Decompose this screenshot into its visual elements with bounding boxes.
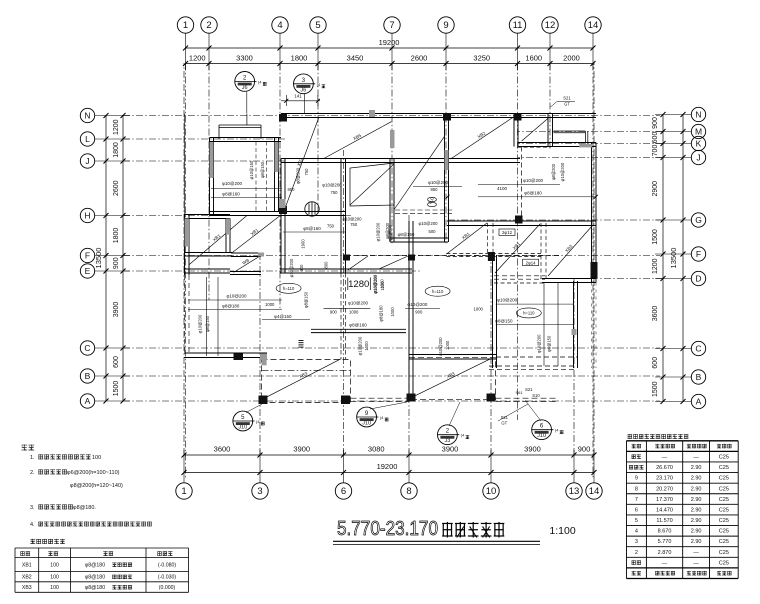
svg-text:—: — (693, 560, 699, 566)
svg-text:L: L (85, 134, 90, 144)
svg-text:C25: C25 (719, 518, 729, 524)
svg-text:3250: 3250 (473, 54, 490, 63)
svg-text:1200: 1200 (189, 54, 206, 63)
svg-text:K: K (696, 139, 702, 149)
svg-text:φ6@200(h=100~110): φ6@200(h=100~110) (67, 470, 120, 476)
svg-text:900: 900 (330, 310, 338, 315)
svg-text:C25: C25 (719, 486, 729, 492)
svg-text:900: 900 (299, 264, 304, 272)
svg-text:—: — (662, 454, 668, 460)
svg-text:1000: 1000 (445, 340, 450, 350)
svg-text:φ8@150: φ8@150 (495, 318, 513, 323)
svg-text:φ4@150: φ4@150 (274, 314, 292, 319)
svg-text:1500: 1500 (652, 381, 659, 397)
svg-text:1000: 1000 (364, 341, 369, 351)
svg-text:h=110: h=110 (432, 289, 444, 294)
svg-text:XB1: XB1 (22, 563, 32, 569)
svg-text:A: A (696, 397, 702, 407)
svg-text:10: 10 (486, 486, 497, 497)
svg-text:C25: C25 (719, 497, 729, 503)
svg-text:3300: 3300 (236, 54, 253, 63)
svg-text:2.90: 2.90 (691, 465, 702, 471)
svg-text:7: 7 (389, 20, 394, 31)
svg-text:1: 1 (183, 20, 188, 31)
svg-text:2.90: 2.90 (691, 518, 702, 524)
svg-text:φ10@200: φ10@200 (523, 178, 543, 183)
svg-text:1.: 1. (30, 455, 35, 461)
svg-text:1: 1 (181, 486, 186, 497)
svg-text:2.870: 2.870 (658, 550, 672, 556)
svg-text:GT: GT (564, 102, 570, 107)
svg-text:14.470: 14.470 (656, 507, 673, 513)
svg-text:2900: 2900 (652, 181, 659, 197)
svg-text:750: 750 (350, 222, 358, 227)
svg-text:3450: 3450 (347, 54, 364, 63)
svg-text:1:100: 1:100 (549, 525, 575, 537)
svg-text:φ10@200: φ10@200 (289, 258, 294, 277)
svg-text:14: 14 (589, 486, 600, 497)
svg-text:(-0.080): (-0.080) (158, 563, 176, 569)
svg-text:1000: 1000 (390, 307, 395, 317)
svg-text:600: 600 (652, 132, 659, 144)
svg-text:XB3: XB3 (22, 585, 32, 591)
svg-text:800: 800 (324, 261, 329, 269)
svg-text:φ8@180: φ8@180 (379, 305, 384, 322)
svg-text:2: 2 (206, 20, 211, 31)
svg-text:2φ12: 2φ12 (502, 230, 513, 235)
svg-text:1900: 1900 (301, 239, 306, 249)
svg-text:900: 900 (652, 117, 659, 129)
svg-text:J6: J6 (300, 87, 306, 93)
svg-text:J3: J3 (444, 438, 450, 444)
svg-text:J10: J10 (537, 433, 546, 439)
svg-text:2.90: 2.90 (691, 507, 702, 513)
svg-text:φ8@150: φ8@150 (547, 335, 552, 352)
svg-text:900: 900 (578, 445, 591, 454)
svg-text:4: 4 (277, 20, 282, 31)
svg-text:GT: GT (501, 421, 507, 426)
svg-text:750: 750 (327, 224, 335, 229)
svg-text:4: 4 (635, 529, 638, 535)
svg-text:(0.000): (0.000) (159, 585, 176, 591)
svg-text:(-0.030): (-0.030) (158, 575, 176, 581)
svg-text:B: B (696, 372, 702, 382)
svg-text:φ10@200: φ10@200 (198, 314, 203, 333)
svg-text:2000: 2000 (563, 54, 580, 63)
svg-text:φ8@150: φ8@150 (205, 315, 210, 332)
svg-text:3600: 3600 (652, 306, 659, 322)
svg-text:900: 900 (113, 257, 120, 269)
svg-text:C: C (695, 344, 701, 354)
svg-text:φ10@200: φ10@200 (497, 298, 517, 303)
svg-text:750: 750 (331, 190, 339, 195)
svg-text:1500: 1500 (652, 229, 659, 245)
svg-text:2.: 2. (30, 470, 35, 476)
svg-text:N: N (84, 111, 90, 121)
svg-text:S21: S21 (563, 96, 571, 101)
svg-text:13: 13 (569, 486, 580, 497)
svg-text:φ10@200: φ10@200 (322, 183, 342, 188)
svg-text:500: 500 (429, 229, 437, 234)
svg-text:3.: 3. (30, 505, 35, 511)
svg-text:S21: S21 (525, 387, 533, 392)
svg-text:2: 2 (635, 550, 638, 556)
svg-text:A: A (85, 396, 91, 406)
svg-text:M: M (695, 127, 702, 137)
svg-text:100: 100 (50, 575, 59, 581)
svg-text:20.270: 20.270 (656, 486, 673, 492)
svg-text:J: J (85, 156, 89, 166)
svg-text:8.670: 8.670 (658, 529, 672, 535)
svg-text:2.90: 2.90 (691, 529, 702, 535)
svg-text:φ8@180: φ8@180 (85, 585, 105, 591)
svg-text:φ8@180: φ8@180 (85, 563, 105, 569)
svg-text:5.770: 5.770 (658, 539, 672, 545)
svg-text:φ10@200: φ10@200 (560, 162, 565, 181)
svg-text:5: 5 (635, 518, 638, 524)
svg-text:h=110: h=110 (283, 286, 295, 291)
svg-text:3: 3 (257, 486, 262, 497)
svg-text:4.: 4. (30, 522, 35, 528)
svg-text:h=110: h=110 (523, 311, 535, 316)
svg-text:φ10@200: φ10@200 (342, 217, 362, 222)
svg-text:750: 750 (304, 168, 309, 176)
svg-text:F: F (85, 251, 90, 261)
svg-text:S10: S10 (532, 393, 540, 398)
svg-text:5.770-23.170: 5.770-23.170 (337, 517, 438, 540)
svg-text:19200: 19200 (377, 462, 398, 471)
svg-text:9: 9 (443, 20, 448, 31)
svg-text:J10: J10 (238, 425, 247, 431)
svg-text:φ8@200: φ8@200 (551, 163, 556, 180)
svg-text:φ8@180: φ8@180 (222, 304, 240, 309)
svg-text:φ8@150: φ8@150 (398, 232, 415, 237)
svg-text:φ10@200: φ10@200 (418, 221, 438, 226)
svg-text:700: 700 (652, 145, 659, 157)
svg-text:φ10@200: φ10@200 (376, 222, 381, 241)
svg-text:3: 3 (635, 539, 638, 545)
svg-text:1000: 1000 (265, 302, 275, 307)
svg-text:1200: 1200 (113, 119, 120, 135)
svg-text:850: 850 (288, 187, 296, 192)
svg-text:2600: 2600 (411, 54, 428, 63)
svg-text:3600: 3600 (214, 445, 231, 454)
svg-text:φ8@180.: φ8@180. (73, 505, 96, 511)
svg-text:2.90: 2.90 (691, 497, 702, 503)
svg-text:11: 11 (513, 20, 523, 31)
svg-text:φ8@150: φ8@150 (303, 291, 308, 308)
svg-text:—: — (693, 454, 699, 460)
svg-text:E: E (85, 266, 91, 276)
svg-text:3900: 3900 (113, 302, 120, 318)
svg-text:100: 100 (50, 563, 59, 569)
svg-text:2φ14: 2φ14 (526, 260, 537, 265)
svg-text:H: H (84, 211, 90, 221)
svg-text:φ10@200: φ10@200 (373, 275, 378, 294)
svg-text:D: D (695, 274, 701, 284)
svg-text:3900: 3900 (524, 445, 541, 454)
svg-text:φ10@200: φ10@200 (227, 294, 247, 299)
svg-text:12: 12 (545, 20, 556, 31)
svg-text:17.370: 17.370 (656, 497, 673, 503)
svg-text:3080: 3080 (368, 445, 385, 454)
svg-text:23.170: 23.170 (656, 476, 673, 482)
svg-text:φ8@160: φ8@160 (222, 192, 240, 197)
svg-text:1600: 1600 (525, 54, 542, 63)
svg-text:φ10@200: φ10@200 (358, 336, 363, 355)
svg-text:G: G (695, 215, 702, 225)
svg-text:1800: 1800 (291, 54, 308, 63)
svg-text:φ10@200: φ10@200 (536, 334, 541, 353)
svg-text:φ8@200: φ8@200 (387, 224, 392, 241)
svg-text:2.90: 2.90 (691, 476, 702, 482)
svg-text:1000: 1000 (349, 310, 359, 315)
svg-text:φ10@200: φ10@200 (222, 181, 242, 186)
svg-text:1200: 1200 (652, 258, 659, 274)
svg-text:850: 850 (431, 187, 439, 192)
svg-text:B: B (85, 371, 91, 381)
svg-text:φ8@160: φ8@160 (349, 323, 367, 328)
svg-text:φ10@200: φ10@200 (407, 302, 427, 307)
svg-text:1000: 1000 (380, 281, 385, 291)
svg-text:C: C (84, 343, 90, 353)
svg-text:φ8@150: φ8@150 (260, 161, 265, 178)
svg-text:φ8@180: φ8@180 (524, 191, 542, 196)
svg-text:C25: C25 (719, 560, 729, 566)
svg-text:C25: C25 (719, 454, 729, 460)
svg-text:φ8@160: φ8@160 (303, 226, 321, 231)
svg-text:600: 600 (652, 357, 659, 369)
svg-text:S61: S61 (515, 390, 523, 395)
svg-text:3900: 3900 (442, 445, 459, 454)
svg-text:φ8@200: φ8@200 (296, 167, 301, 184)
svg-text:φ10@200: φ10@200 (438, 337, 443, 356)
svg-text:1000: 1000 (474, 307, 484, 312)
svg-text:C25: C25 (719, 550, 729, 556)
svg-text:C25: C25 (719, 507, 729, 513)
svg-text:100: 100 (92, 455, 101, 461)
svg-text:F: F (696, 249, 701, 259)
svg-text:φ10@150: φ10@150 (249, 160, 254, 179)
svg-text:2.90: 2.90 (691, 539, 702, 545)
svg-text:1500: 1500 (113, 381, 120, 397)
svg-text:5: 5 (315, 20, 320, 31)
svg-text:φ8@180: φ8@180 (85, 575, 105, 581)
svg-text:C25: C25 (719, 539, 729, 545)
svg-text:3900: 3900 (293, 445, 310, 454)
svg-text:9: 9 (635, 476, 638, 482)
svg-text:C25: C25 (719, 476, 729, 482)
svg-text:8: 8 (635, 486, 638, 492)
svg-text:100: 100 (50, 585, 59, 591)
svg-text:C25: C25 (719, 465, 729, 471)
svg-text:13500: 13500 (669, 248, 678, 269)
svg-text:—: — (693, 550, 699, 556)
svg-text:26.670: 26.670 (656, 465, 673, 471)
svg-text:1800: 1800 (113, 228, 120, 244)
svg-text:6: 6 (635, 507, 638, 513)
svg-text:4100: 4100 (497, 186, 508, 191)
svg-text:φ10@200: φ10@200 (348, 301, 368, 306)
svg-text:900: 900 (415, 310, 423, 315)
svg-text:14: 14 (588, 20, 599, 31)
svg-text:7: 7 (635, 497, 638, 503)
svg-text:1800: 1800 (113, 142, 120, 158)
svg-text:φ10@200: φ10@200 (428, 180, 448, 185)
svg-text:—: — (662, 560, 668, 566)
svg-text:2.90: 2.90 (691, 486, 702, 492)
svg-text:XB2: XB2 (22, 575, 32, 581)
svg-text:J6: J6 (242, 85, 248, 91)
svg-text:1280: 1280 (348, 279, 369, 290)
svg-text:N: N (695, 110, 701, 120)
svg-text:φ8@200(h=120~140): φ8@200(h=120~140) (70, 483, 123, 489)
svg-text:J: J (696, 153, 700, 163)
svg-text:6: 6 (341, 486, 346, 497)
svg-text:600: 600 (113, 356, 120, 368)
svg-text:141: 141 (294, 94, 302, 99)
svg-text:2600: 2600 (113, 180, 120, 196)
svg-text:11.570: 11.570 (656, 518, 672, 524)
svg-text:8: 8 (406, 486, 411, 497)
svg-text:C25: C25 (719, 529, 729, 535)
svg-text:J10: J10 (362, 421, 371, 427)
svg-text:13500: 13500 (94, 248, 103, 269)
svg-text:19200: 19200 (379, 38, 400, 47)
